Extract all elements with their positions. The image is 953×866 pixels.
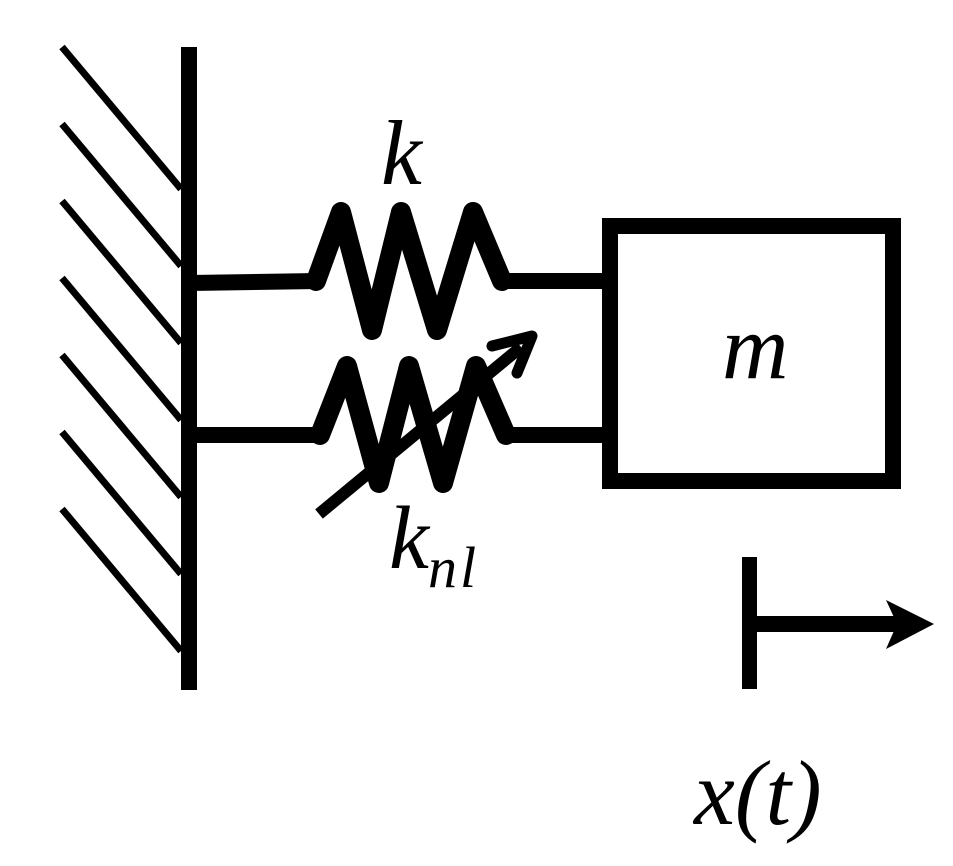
svg-text:k: k [389,489,431,588]
svg-text:k: k [381,102,424,204]
svg-text:x(t): x(t) [692,742,822,844]
svg-text:m: m [722,296,788,398]
svg-text:nl: nl [428,535,479,600]
